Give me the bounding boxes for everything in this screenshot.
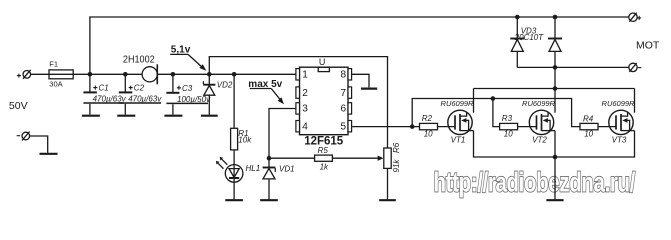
- svg-text:МОТ: МОТ: [636, 40, 660, 52]
- wire motor minus: [517, 66, 629, 68]
- svg-text:1: 1: [302, 70, 308, 81]
- diode 2H1002: [142, 64, 157, 84]
- wire drain VT1: [473, 89, 475, 113]
- svg-text:1k: 1k: [320, 163, 329, 172]
- wire drop to R3: [493, 99, 500, 127]
- wire 2H1002 to IC pin1: [157, 73, 295, 75]
- svg-text:C1: C1: [99, 84, 109, 93]
- wire -input to ground: [30, 136, 48, 153]
- wire source bus: [474, 131, 635, 157]
- ground (VD2): [201, 115, 218, 117]
- svg-text:4: 4: [302, 122, 308, 133]
- node junction R1: [232, 72, 237, 77]
- node junction minus wire: [553, 65, 558, 70]
- wire gate bus: [412, 99, 580, 127]
- svg-text:470µ/63v: 470µ/63v: [93, 95, 127, 104]
- wire IC pin3 to divider: [269, 109, 296, 168]
- wire top rail 50V: [90, 17, 629, 74]
- fuse F1: [49, 70, 73, 79]
- svg-text:10k: 10k: [238, 136, 252, 145]
- LED HL1: [216, 150, 243, 199]
- wire VT2 source to ground: [554, 131, 556, 200]
- node junction R5/VD1: [267, 156, 272, 161]
- svg-text:2H1002: 2H1002: [123, 55, 155, 66]
- svg-text:10: 10: [424, 129, 433, 138]
- svg-text:C3: C3: [182, 84, 193, 93]
- label max 5v arrow: [250, 89, 284, 105]
- svg-text:HL1: HL1: [246, 164, 261, 173]
- ground (pin8): [361, 87, 377, 89]
- svg-text:R2: R2: [422, 114, 433, 123]
- svg-text:R3: R3: [502, 114, 513, 123]
- ground (C1): [82, 115, 100, 117]
- svg-text:RU6099R: RU6099R: [441, 99, 475, 108]
- svg-text:VT1: VT1: [451, 135, 466, 144]
- transistor VT1: [448, 110, 474, 134]
- node junction R3 drop: [491, 96, 496, 101]
- svg-text:10: 10: [584, 129, 593, 138]
- wire drain bus: [474, 88, 635, 90]
- ground (HL1): [225, 199, 243, 201]
- resistor R4 10: [580, 123, 616, 129]
- svg-text:VT2: VT2: [532, 135, 547, 144]
- svg-text:20C10T: 20C10T: [514, 33, 545, 42]
- wire input to 2H1002: [31, 73, 143, 75]
- resistor R3 10: [500, 123, 537, 129]
- node junction gate riser: [410, 124, 415, 129]
- resistor R5 1k: [269, 155, 379, 161]
- svg-text:6: 6: [341, 104, 347, 115]
- svg-text:F1: F1: [49, 60, 58, 69]
- node junction drain bus: [553, 86, 558, 91]
- capacitor C1: [83, 74, 123, 114]
- svg-text:30A: 30A: [49, 79, 62, 88]
- terminal - input: [17, 132, 30, 141]
- svg-text:VT3: VT3: [612, 135, 627, 144]
- node junction C2: [123, 72, 128, 77]
- ground (R6): [379, 199, 396, 201]
- node junction F1/C1: [88, 72, 93, 77]
- terminal + motor: [629, 13, 641, 22]
- wire pin8 to ground: [352, 74, 369, 87]
- ground (input): [40, 153, 58, 155]
- svg-text:max 5v: max 5v: [248, 79, 282, 90]
- svg-text:470µ/63v: 470µ/63v: [128, 95, 162, 104]
- resistor R1 10k: [231, 74, 238, 150]
- svg-text:C2: C2: [134, 84, 145, 93]
- ground (VD1): [260, 199, 278, 201]
- svg-text:R4: R4: [583, 115, 594, 124]
- ground (source bus): [546, 199, 563, 201]
- resistor R2 10: [420, 123, 456, 129]
- wire pin5 gate net: [352, 126, 420, 128]
- svg-text:2: 2: [302, 88, 308, 99]
- diode VD3 left half: [510, 17, 524, 67]
- op IC U 12F615 body: [300, 67, 349, 135]
- svg-text:100µ/50v: 100µ/50v: [177, 95, 211, 104]
- node junction VD3 right on rail: [553, 15, 558, 20]
- svg-text:5: 5: [341, 122, 347, 133]
- svg-text:U: U: [319, 57, 326, 67]
- IC pin boxes left 1-4: [296, 69, 300, 80]
- svg-text:R5: R5: [318, 146, 329, 155]
- svg-text:3: 3: [302, 104, 308, 115]
- node junction C3: [171, 72, 176, 77]
- svg-text:5,1v: 5,1v: [171, 45, 191, 56]
- IC pin boxes right 8-5: [348, 69, 352, 80]
- transistor VT3: [609, 110, 635, 134]
- diode VD1: [263, 168, 276, 200]
- label 5,1v arrow: [170, 54, 206, 70]
- capacitor C3: [166, 74, 208, 114]
- svg-text:50V: 50V: [9, 100, 28, 112]
- wire 5v rail to R6: [209, 57, 387, 148]
- svg-text:10: 10: [504, 129, 513, 138]
- svg-text:7: 7: [341, 88, 347, 99]
- IC notch: [318, 67, 329, 71]
- diode VD3 right half: [548, 17, 562, 113]
- svg-text:R6: R6: [392, 142, 401, 153]
- svg-text:RU6099R: RU6099R: [522, 99, 556, 108]
- transistor VT2: [529, 110, 555, 134]
- terminal - motor: [629, 63, 642, 72]
- svg-text:VD2: VD2: [217, 81, 233, 90]
- wire drain VT3: [634, 89, 636, 113]
- capacitor C2: [119, 74, 161, 114]
- terminal + input: [17, 70, 31, 79]
- trimmer R6 body: [384, 148, 391, 168]
- trimmer R6 91k wiper arrow: [378, 156, 384, 161]
- ground (C2): [117, 115, 135, 117]
- ground (C3): [164, 115, 182, 117]
- svg-text:8: 8: [341, 70, 347, 81]
- svg-text:RU6099R: RU6099R: [602, 99, 636, 108]
- wire R6 to ground: [387, 168, 389, 199]
- node junction VD2: [207, 72, 212, 77]
- zener VD2 5.1v: [203, 74, 215, 114]
- svg-text:http://radiobezdna.ru/: http://radiobezdna.ru/: [434, 167, 636, 198]
- node junction source bus: [553, 155, 558, 160]
- svg-text:VD1: VD1: [279, 165, 295, 174]
- node junction VD3 left on rail: [515, 15, 520, 20]
- svg-text:91k: 91k: [392, 159, 401, 173]
